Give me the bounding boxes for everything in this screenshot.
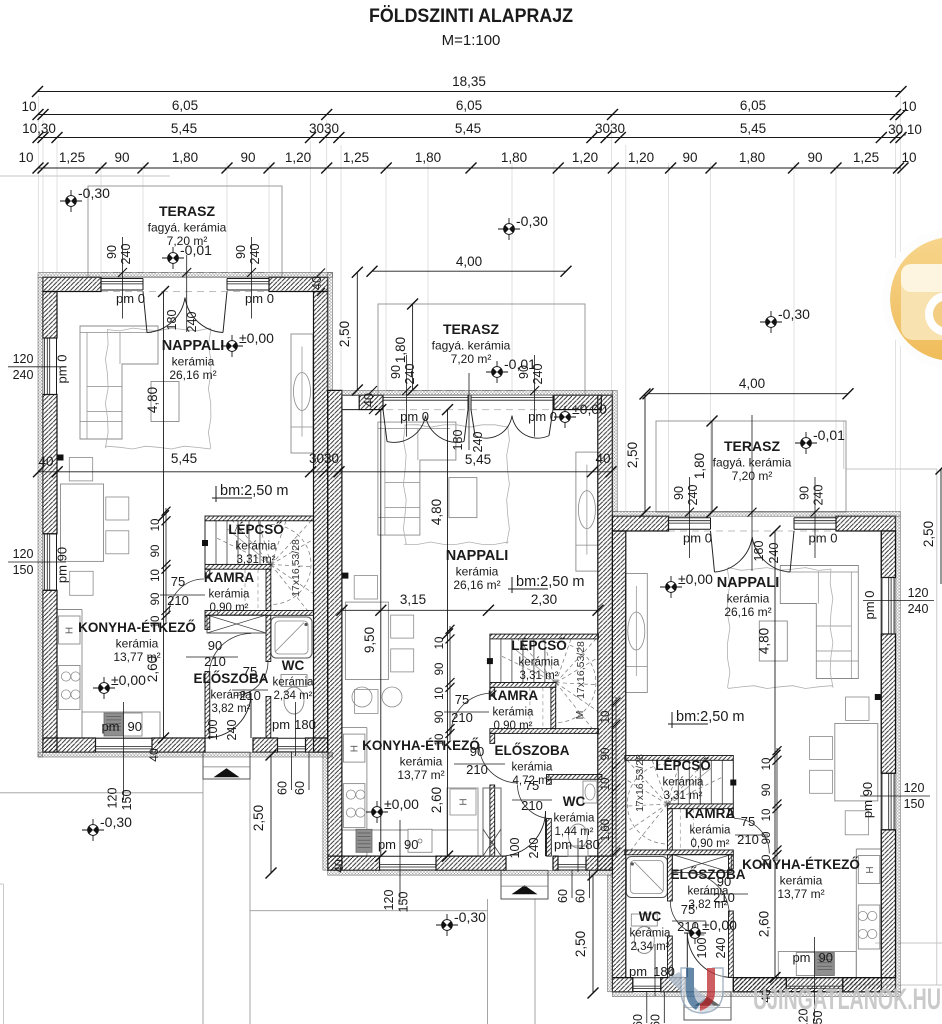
svg-text:10: 10	[600, 711, 612, 724]
svg-text:17x16,53/28: 17x16,53/28	[575, 641, 587, 699]
svg-text:10: 10	[901, 150, 916, 165]
svg-text:240: 240	[403, 364, 417, 385]
svg-text:2,50: 2,50	[251, 805, 266, 831]
svg-text:-0,30: -0,30	[78, 185, 110, 201]
unit3 terrace door 180	[711, 531, 715, 572]
unit2 kitchen window labels	[399, 820, 401, 902]
svg-text:60: 60	[574, 889, 588, 903]
svg-text:1,25: 1,25	[853, 150, 879, 165]
svg-text:210: 210	[204, 654, 226, 669]
unit3 right wall upper	[881, 531, 895, 578]
insulation	[612, 511, 900, 516]
wc door	[234, 662, 268, 696]
svg-text:±0,00: ±0,00	[678, 571, 713, 587]
unit3 right wall mid	[881, 634, 895, 773]
svg-text:H: H	[65, 627, 76, 634]
svg-text:pm 0: pm 0	[245, 291, 274, 306]
unit2 bottom 2,50	[592, 875, 594, 993]
kitchen counter	[81, 610, 83, 739]
svg-text:KONYHA-ÉTKEZŐ: KONYHA-ÉTKEZŐ	[362, 738, 480, 753]
svg-text:40: 40	[595, 451, 610, 466]
svg-text:180: 180	[752, 541, 766, 562]
chairs	[810, 737, 833, 760]
svg-text:90: 90	[404, 837, 418, 852]
svg-text:pm: pm	[272, 717, 290, 732]
svg-text:kerámia: kerámia	[727, 592, 770, 606]
rug	[727, 568, 833, 689]
svg-text:210: 210	[737, 832, 759, 847]
hall left wall lower	[205, 672, 210, 739]
svg-text:pm: pm	[629, 964, 647, 979]
svg-text:150: 150	[397, 892, 411, 913]
unit3 party wall left band	[612, 531, 625, 978]
svg-text:40: 40	[310, 276, 324, 290]
unit1 facade dims	[122, 237, 124, 319]
unit3 right wall segments	[881, 531, 895, 578]
svg-text:150: 150	[904, 797, 925, 811]
svg-text:3,31 m²: 3,31 m²	[237, 554, 276, 566]
unit1 wc window 60	[278, 751, 306, 753]
svg-text:1,80: 1,80	[415, 150, 441, 165]
svg-text:0,90 m²: 0,90 m²	[494, 720, 533, 732]
svg-text:90: 90	[798, 486, 812, 500]
svg-text:10: 10	[901, 99, 916, 114]
dimension row 1: 18,35	[38, 91, 902, 93]
svg-text:90: 90	[434, 663, 446, 676]
svg-text:-0,01: -0,01	[813, 427, 845, 443]
svg-text:18,35: 18,35	[452, 74, 486, 89]
svg-text:pm 0: pm 0	[528, 409, 557, 424]
unit2 partition dim chain	[449, 626, 451, 740]
svg-text:90: 90	[761, 784, 773, 797]
unit2 terrace door B 180	[471, 410, 475, 436]
svg-text:90: 90	[208, 638, 222, 653]
dim extension lines	[38, 96, 40, 272]
unit1 pm180	[295, 702, 297, 756]
svg-text:3030: 3030	[309, 121, 339, 136]
elevation unit3 konyha	[684, 922, 706, 944]
svg-text:40: 40	[38, 454, 53, 469]
terrace unit2	[378, 304, 585, 395]
dashed terrace edge	[386, 390, 554, 392]
svg-text:3,82 m²: 3,82 m²	[212, 703, 251, 715]
svg-text:-0,01: -0,01	[180, 242, 212, 258]
unit3 facade window right 90	[794, 517, 836, 519]
svg-text:fagyá. kerámia: fagyá. kerámia	[148, 221, 227, 235]
svg-text:7,20 m²: 7,20 m²	[732, 469, 773, 483]
svg-text:4,80: 4,80	[145, 387, 160, 413]
unit1 left wall mid	[43, 395, 57, 534]
svg-text:90: 90	[819, 950, 833, 965]
stair bottom partition	[625, 850, 734, 855]
stair top partition	[625, 756, 734, 761]
kamra left wall stub	[205, 569, 210, 578]
terrace unit3	[656, 421, 846, 512]
svg-text:90: 90	[150, 593, 162, 606]
svg-text:1,80: 1,80	[501, 150, 527, 165]
svg-text:180: 180	[578, 837, 600, 852]
svg-text:pm: pm	[378, 837, 396, 852]
svg-text:90: 90	[114, 150, 129, 165]
unit3 wc window 60/60	[646, 992, 648, 1023]
svg-text:90: 90	[600, 748, 612, 761]
svg-text:240: 240	[908, 602, 929, 616]
unit2 top wall left pier	[359, 395, 383, 409]
svg-text:10: 10	[18, 150, 33, 165]
insulation	[612, 390, 617, 511]
elevation unit1 yard	[82, 819, 104, 841]
svg-text:240: 240	[527, 838, 541, 859]
unit2 dim 9,50	[380, 410, 382, 856]
unit2 party wall right	[598, 395, 613, 870]
svg-text:240: 240	[767, 543, 781, 564]
unit2 interior doors	[451, 693, 492, 734]
svg-text:90: 90	[389, 365, 403, 379]
svg-text:1,25: 1,25	[59, 150, 85, 165]
svg-text:4,80: 4,80	[429, 499, 444, 525]
svg-text:-0,30: -0,30	[516, 213, 548, 229]
svg-text:6,05: 6,05	[740, 98, 766, 113]
svg-text:60: 60	[293, 781, 307, 795]
svg-text:kerámia: kerámia	[554, 813, 596, 825]
svg-text:7,20 m²: 7,20 m²	[451, 352, 492, 366]
hall left wall lower	[729, 911, 734, 978]
svg-text:ELŐSZOBA: ELŐSZOBA	[670, 867, 745, 882]
elevation unit1 konyha	[93, 677, 115, 699]
svg-text:FÖLDSZINTI ALAPRAJZ: FÖLDSZINTI ALAPRAJZ	[369, 6, 573, 27]
elevation -0,30 top-left	[60, 190, 82, 212]
unit2 bottom wall a	[328, 856, 380, 870]
sofa	[80, 326, 158, 439]
stairs straight flight	[215, 521, 217, 565]
svg-text:90: 90	[128, 719, 142, 734]
rug	[105, 328, 211, 449]
svg-text:240: 240	[13, 368, 34, 382]
unit1 bottom wall d	[306, 738, 328, 752]
svg-text:kerámia: kerámia	[211, 690, 253, 702]
kamra left wall stub	[729, 809, 734, 818]
insulation	[612, 992, 900, 997]
elevation unit3 terrace	[795, 432, 817, 454]
unit3 right window 120/240	[893, 578, 895, 635]
svg-text:pm 0: pm 0	[683, 531, 712, 546]
unit3 bottom wall d	[612, 978, 632, 992]
svg-text:1,80: 1,80	[739, 150, 765, 165]
svg-text:6,05: 6,05	[172, 98, 198, 113]
svg-text:120: 120	[106, 788, 120, 809]
unit3 top wall left pier	[612, 516, 668, 531]
wardrobe	[207, 615, 266, 633]
stove	[59, 666, 81, 710]
unit2 facade glazing	[383, 397, 468, 399]
svg-text:240: 240	[119, 244, 133, 265]
fridge H	[59, 616, 81, 644]
entry door	[250, 693, 252, 738]
svg-text:5,45: 5,45	[465, 452, 491, 467]
unit3 bottom wall a	[843, 978, 896, 992]
unit2 kitchen window 120/150	[380, 869, 437, 871]
svg-text:fagyá. kerámia: fagyá. kerámia	[432, 339, 511, 353]
wc partition lower	[266, 697, 271, 739]
svg-text:75: 75	[455, 692, 469, 707]
unit1 party wall	[314, 292, 328, 753]
insulation	[38, 273, 333, 278]
svg-text:240: 240	[714, 938, 728, 959]
unit3 facade window left 90	[669, 517, 711, 519]
svg-text:KONYHA-ÉTKEZŐ: KONYHA-ÉTKEZŐ	[78, 620, 196, 635]
svg-text:4,00: 4,00	[739, 376, 765, 391]
svg-text:5,45: 5,45	[740, 121, 766, 136]
svg-text:2,60: 2,60	[429, 787, 444, 813]
svg-text:60: 60	[631, 1014, 645, 1024]
wc door	[670, 901, 704, 935]
fridge H	[343, 734, 365, 762]
stairs spiral fan	[209, 564, 271, 566]
svg-text:120: 120	[382, 890, 396, 911]
svg-text:5,45: 5,45	[171, 121, 197, 136]
shower	[626, 857, 667, 898]
svg-text:KONYHA-ÉTKEZŐ: KONYHA-ÉTKEZŐ	[742, 857, 860, 872]
kamra door	[734, 819, 769, 854]
svg-text:KAMRA: KAMRA	[204, 570, 254, 585]
walkway unit2	[487, 899, 489, 1024]
svg-text:1,80: 1,80	[172, 150, 198, 165]
unit3 terrace dims	[644, 394, 646, 512]
svg-text:90: 90	[682, 150, 697, 165]
svg-text:240: 240	[686, 485, 700, 506]
svg-text:120: 120	[904, 781, 925, 795]
unit2 bottom wall b	[436, 856, 506, 870]
dining table	[835, 724, 878, 801]
unit3 right wall upper-part	[881, 531, 895, 978]
insulation	[328, 870, 613, 875]
svg-text:1,20: 1,20	[628, 150, 654, 165]
svg-text:kerámia: kerámia	[663, 777, 705, 789]
stairs straight flight	[500, 639, 502, 683]
unit3 kitchen window 120/150	[786, 991, 843, 993]
svg-text:KAMRA: KAMRA	[685, 806, 735, 821]
elevation unit2 yard	[436, 914, 458, 936]
coffee table	[449, 478, 477, 518]
kamra door	[169, 579, 204, 614]
svg-text:pm 0: pm 0	[400, 409, 429, 424]
svg-text:pm: pm	[792, 950, 810, 965]
svg-text:13,77 m²: 13,77 m²	[777, 887, 824, 901]
dining table	[61, 484, 104, 561]
kitchen counter	[855, 849, 857, 978]
insulation	[342, 390, 613, 395]
svg-text:40: 40	[147, 748, 161, 762]
unit2 facade dims	[406, 355, 408, 437]
svg-text:kerámia: kerámia	[688, 886, 730, 898]
svg-text:3,31 m²: 3,31 m²	[664, 790, 703, 802]
svg-text:240: 240	[225, 720, 239, 741]
svg-text:1,60: 1,60	[600, 819, 612, 841]
unit2 top wall right pier	[554, 395, 601, 409]
unit3 right window labels	[863, 600, 934, 602]
svg-text:-0,30: -0,30	[454, 909, 486, 925]
tv sideboard	[291, 334, 313, 453]
svg-text:2,30: 2,30	[531, 592, 557, 607]
toilet	[281, 675, 307, 687]
svg-text:±0,00: ±0,00	[702, 917, 737, 933]
unit3 4,00 dim	[648, 393, 848, 395]
svg-text:pm: pm	[554, 837, 572, 852]
svg-text:100: 100	[508, 838, 522, 859]
svg-text:H: H	[349, 745, 360, 752]
unit3 bottom wall b	[733, 978, 786, 992]
insulation	[323, 752, 328, 870]
svg-text:180: 180	[294, 717, 316, 732]
svg-text:kerámia: kerámia	[690, 825, 732, 837]
svg-text:M: M	[574, 711, 586, 720]
parcel line right	[936, 469, 938, 985]
unit1 facade window left 90	[101, 278, 143, 280]
svg-text:13,77 m²: 13,77 m²	[397, 768, 444, 782]
u2 tall cabinets + fridge	[447, 788, 478, 856]
svg-text:kerámia: kerámia	[456, 565, 499, 579]
svg-text:LÉPCSŐ: LÉPCSŐ	[228, 522, 284, 537]
stairs straight flight	[721, 761, 723, 805]
svg-text:120: 120	[13, 547, 34, 561]
svg-text:60: 60	[276, 781, 290, 795]
toilet	[631, 914, 657, 926]
unit1 porch	[203, 752, 250, 779]
u2 kamra right wall	[551, 687, 556, 728]
svg-text:30,10: 30,10	[888, 122, 922, 137]
svg-text:4,00: 4,00	[456, 254, 482, 269]
unit2 entry door	[545, 811, 547, 856]
svg-text:WC: WC	[639, 909, 662, 924]
svg-text:3030: 3030	[309, 451, 339, 466]
svg-text:2,50: 2,50	[921, 521, 936, 547]
svg-text:10: 10	[150, 569, 162, 582]
elevation unit2 konyha	[366, 801, 388, 823]
svg-text:3030: 3030	[595, 121, 625, 136]
svg-text:pm 0: pm 0	[55, 355, 70, 384]
unit1 kitchen window 120/150	[96, 751, 153, 753]
svg-text:TERASZ: TERASZ	[159, 203, 215, 219]
svg-text:pm 0: pm 0	[809, 531, 838, 546]
coffee table	[759, 621, 787, 661]
svg-text:kerámia: kerámia	[209, 589, 251, 601]
unit3 right wall lower	[881, 830, 895, 978]
unit2 4,80 dim line	[447, 410, 449, 856]
unit2 wc window 60/60	[571, 870, 573, 898]
unit1 bottom wall c	[253, 738, 278, 752]
svg-text:2,60: 2,60	[757, 911, 772, 937]
svg-text:kerámia: kerámia	[273, 677, 315, 689]
svg-text:10: 10	[600, 778, 612, 791]
watermark camera icon	[882, 229, 942, 369]
elevation unit3 yard	[760, 311, 782, 333]
svg-text:1,80: 1,80	[692, 453, 707, 479]
hall door	[209, 634, 251, 676]
svg-text:-0,30: -0,30	[778, 306, 810, 322]
svg-text:240: 240	[248, 244, 262, 265]
svg-text:100: 100	[695, 938, 709, 959]
svg-text:-0,01: -0,01	[504, 356, 536, 372]
terrace unit1	[88, 186, 282, 277]
wc partition upper	[668, 855, 673, 901]
svg-text:180: 180	[451, 430, 465, 451]
sink counter	[82, 712, 160, 738]
svg-text:90: 90	[240, 150, 255, 165]
svg-text:90: 90	[105, 245, 119, 259]
kamra top partition	[205, 564, 271, 569]
svg-text:180: 180	[165, 310, 179, 331]
svg-text:0,90 m²: 0,90 m²	[210, 602, 249, 614]
svg-text:3,15: 3,15	[400, 592, 426, 607]
tv sideboard	[576, 452, 598, 571]
fridge H	[858, 856, 880, 884]
elevation top-middle	[498, 218, 520, 240]
site boundary lines	[0, 175, 170, 177]
svg-text:26,16 m²: 26,16 m²	[453, 578, 500, 592]
svg-text:10: 10	[150, 519, 162, 532]
unit1 left window 120/240	[43, 338, 45, 395]
coffee table	[151, 382, 179, 422]
svg-text:100: 100	[206, 720, 220, 741]
party wall 2-3 dim chain	[615, 697, 617, 858]
svg-text:ELŐSZOBA: ELŐSZOBA	[494, 743, 569, 758]
svg-text:bm:2,50 m: bm:2,50 m	[516, 574, 585, 590]
svg-text:WC: WC	[282, 658, 305, 673]
svg-text:pm 90: pm 90	[55, 547, 70, 583]
svg-text:150: 150	[13, 563, 34, 577]
unit2 toilet	[568, 846, 588, 856]
svg-text:WC: WC	[563, 794, 586, 809]
svg-text:TERASZ: TERASZ	[724, 438, 780, 454]
watermark logo U	[668, 968, 723, 1014]
dimension row 3: 5,45	[38, 137, 901, 139]
sofa	[378, 422, 456, 535]
hall left wall upper	[205, 615, 210, 629]
right edge 2,50	[940, 469, 942, 584]
unit1 bottom 2,50	[270, 755, 272, 873]
svg-text:kerámia: kerámia	[780, 874, 823, 888]
unit1 bottom wall b	[152, 738, 205, 752]
kamra top partition	[667, 804, 733, 809]
svg-text:LÉPCSŐ: LÉPCSŐ	[511, 638, 567, 653]
unit3 top wall right pier	[836, 516, 896, 531]
svg-text:NAPPALI: NAPPALI	[717, 575, 780, 591]
dimension row 4	[38, 167, 901, 169]
stairs spiral fan	[494, 682, 556, 684]
svg-text:ELŐSZOBA: ELŐSZOBA	[193, 671, 268, 686]
sofa	[780, 566, 858, 679]
unit3 kitchen window labels	[814, 937, 816, 1021]
chairs	[391, 615, 414, 638]
unit1 top wall left pier	[43, 277, 101, 291]
u2 wc left wall lower	[547, 819, 552, 857]
svg-text:90: 90	[150, 545, 162, 558]
wc partition upper	[266, 615, 271, 661]
stair bottom partition	[205, 611, 314, 616]
svg-text:±0,00: ±0,00	[384, 796, 419, 812]
svg-text:10: 10	[434, 637, 446, 650]
svg-text:2,50: 2,50	[573, 931, 588, 957]
svg-text:2,50: 2,50	[337, 321, 352, 347]
u2 stair top partition	[490, 634, 599, 639]
unit1 4,80/2,60 dim line	[163, 292, 165, 739]
kamra right wall	[668, 809, 673, 850]
unit3 facade dims	[689, 477, 691, 558]
svg-text:4,72 m²: 4,72 m²	[513, 775, 552, 787]
svg-text:120: 120	[908, 586, 929, 600]
dimension row 2: 6,05	[38, 114, 901, 116]
walkway unit1	[202, 779, 204, 1024]
